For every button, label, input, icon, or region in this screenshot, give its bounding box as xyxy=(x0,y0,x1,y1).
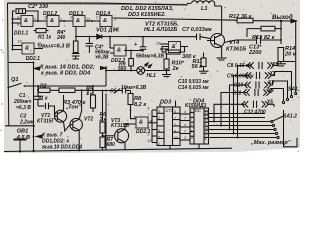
svg-text:8,2 к: 8,2 к xyxy=(134,102,147,108)
svg-text:2200: 2200 xyxy=(248,50,262,56)
svg-text:R12 36 к: R12 36 к xyxy=(229,14,253,20)
svg-text:CT2: CT2 xyxy=(166,108,175,113)
svg-text:4: 4 xyxy=(184,110,186,114)
svg-text:10: 10 xyxy=(37,42,41,46)
svg-text:VD1 Д9К: VD1 Д9К xyxy=(96,28,120,34)
svg-text:DD1.4: DD1.4 xyxy=(96,11,110,17)
svg-text:2к: 2к xyxy=(172,66,180,72)
svg-text:1: 1 xyxy=(158,116,160,120)
svg-text:Q1: Q1 xyxy=(11,77,18,83)
svg-text:9: 9 xyxy=(17,23,19,27)
svg-text:GB1: GB1 xyxy=(17,129,29,135)
svg-text:240: 240 xyxy=(56,35,66,41)
svg-text:3 к: 3 к xyxy=(86,91,93,97)
svg-text:„Мах. размер": „Мах. размер" xyxy=(250,140,291,146)
svg-text:Х4: Х4 xyxy=(267,88,274,94)
svg-text:Х5: Х5 xyxy=(266,100,273,106)
svg-text:VT2: VT2 xyxy=(84,117,93,123)
svg-text:1: 1 xyxy=(60,18,62,22)
svg-text:C5: C5 xyxy=(110,89,117,95)
svg-text:КТ315Г: КТ315Г xyxy=(37,119,56,125)
svg-text:Выход: Выход xyxy=(272,14,293,21)
svg-text:HL1 АЛ102Б: HL1 АЛ102Б xyxy=(144,27,177,33)
svg-text:1: 1 xyxy=(175,42,177,46)
svg-text:Х1: Х1 xyxy=(271,62,278,68)
svg-text:91 к: 91 к xyxy=(38,96,48,102)
svg-text:1: 1 xyxy=(191,130,193,134)
svg-text:1: 1 xyxy=(158,142,160,146)
svg-text:9: 9 xyxy=(158,129,160,133)
svg-text:R13 82 к: R13 82 к xyxy=(252,35,276,41)
svg-text:13: 13 xyxy=(18,40,22,44)
svg-text:SA1.2: SA1.2 xyxy=(283,114,297,120)
svg-text:12: 12 xyxy=(44,16,48,20)
svg-text:к выв. 8 DD3, DD4: к выв. 8 DD3, DD4 xyxy=(41,71,91,77)
svg-text:6: 6 xyxy=(158,136,160,140)
svg-text:7: 7 xyxy=(184,130,186,134)
svg-text:3: 3 xyxy=(17,16,19,20)
svg-text:4: 4 xyxy=(184,123,186,127)
svg-text:КТ361Б: КТ361Б xyxy=(226,47,246,53)
svg-text:C14 0,015 мк: C14 0,015 мк xyxy=(178,85,209,91)
svg-text:4,5 В: 4,5 В xyxy=(16,135,30,141)
svg-text:VT4: VT4 xyxy=(229,40,240,46)
svg-text:7: 7 xyxy=(191,117,193,121)
svg-text:1: 1 xyxy=(191,110,193,114)
svg-text:R2: R2 xyxy=(40,84,47,90)
svg-text:DD2.1: DD2.1 xyxy=(26,56,40,62)
svg-text:6: 6 xyxy=(148,106,150,110)
svg-text:2: 2 xyxy=(147,126,150,130)
svg-text:КТ315Б: КТ315Б xyxy=(111,123,130,129)
svg-text:DD3: DD3 xyxy=(160,100,172,106)
svg-text:DD3 К155ИЕ2.: DD3 К155ИЕ2. xyxy=(128,12,166,18)
svg-text:1: 1 xyxy=(205,137,207,141)
svg-text:3: 3 xyxy=(114,18,116,22)
svg-text:5: 5 xyxy=(134,115,136,119)
svg-text:7: 7 xyxy=(184,117,186,121)
svg-text:680: 680 xyxy=(107,142,116,148)
svg-text:DD1.1: DD1.1 xyxy=(14,31,28,37)
svg-text:Uвых=6,3 В: Uвых=6,3 В xyxy=(38,44,70,50)
svg-text:L1: L1 xyxy=(201,6,208,12)
svg-text:=6,3 В: =6,3 В xyxy=(16,105,31,111)
svg-text:C7 0,033мк: C7 0,033мк xyxy=(182,27,213,33)
svg-text:11: 11 xyxy=(70,16,74,20)
svg-text:3: 3 xyxy=(158,110,160,114)
svg-text:2 к: 2 к xyxy=(99,117,107,123)
svg-text:R1 1к: R1 1к xyxy=(38,35,52,41)
svg-text:7: 7 xyxy=(148,113,150,117)
svg-text:8: 8 xyxy=(150,119,152,123)
svg-text:10: 10 xyxy=(148,139,152,143)
svg-text:„Тон": „Тон" xyxy=(65,105,81,111)
svg-text:13: 13 xyxy=(156,42,160,46)
svg-text:560мк×6,3В: 560мк×6,3В xyxy=(136,54,164,60)
svg-text:9: 9 xyxy=(174,110,176,114)
svg-text:C12 4700: C12 4700 xyxy=(244,110,266,116)
svg-text:10: 10 xyxy=(174,136,178,140)
svg-text:5: 5 xyxy=(125,47,127,51)
svg-text:4: 4 xyxy=(191,136,193,140)
svg-text:HL1: HL1 xyxy=(147,73,157,79)
svg-text:56 к: 56 к xyxy=(192,64,204,70)
svg-text:9: 9 xyxy=(174,130,176,134)
svg-text:2: 2 xyxy=(95,16,98,20)
svg-text:C10: C10 xyxy=(234,82,243,88)
svg-text:1: 1 xyxy=(109,45,111,49)
svg-text:560: 560 xyxy=(118,66,127,72)
svg-text:выв.10 DD3,DD4: выв.10 DD3,DD4 xyxy=(42,145,82,151)
svg-text:2: 2 xyxy=(183,136,186,140)
svg-text:13: 13 xyxy=(86,18,90,22)
svg-text:C8 0,15 мк: C8 0,15 мк xyxy=(227,63,253,69)
svg-text:Х3: Х3 xyxy=(267,80,274,86)
svg-text:10мк×6,3В: 10мк×6,3В xyxy=(121,85,147,91)
svg-text:2,2мк: 2,2мк xyxy=(19,120,34,126)
svg-text:C9 0,068мк: C9 0,068мк xyxy=(227,74,254,80)
svg-text:C11: C11 xyxy=(233,91,242,97)
svg-text:2: 2 xyxy=(173,117,176,121)
svg-text:DC: DC xyxy=(195,108,202,113)
svg-text:2: 2 xyxy=(173,123,176,127)
svg-text:2: 2 xyxy=(190,123,193,127)
svg-text:2: 2 xyxy=(147,132,150,136)
svg-text:SA1.1: SA1.1 xyxy=(288,87,300,93)
svg-text:20 к: 20 к xyxy=(284,52,297,58)
